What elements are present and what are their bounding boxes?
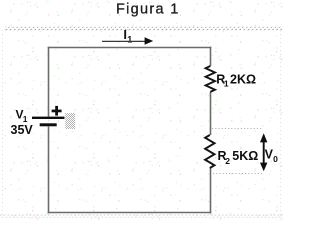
textbox dotted border right	[280, 30, 282, 215]
dashed leader line top of R2	[212, 128, 263, 130]
label V1	[16, 108, 28, 124]
wire left lower	[48, 127, 50, 214]
wire right lower	[210, 168, 212, 213]
V0 measurement arrow	[260, 133, 267, 171]
wire bottom	[48, 212, 212, 214]
label R2 5KOhm	[218, 149, 259, 166]
svg-text:2KΩ: 2KΩ	[230, 73, 256, 87]
resistor R2 zigzag	[205, 135, 214, 168]
label R1 2KOhm	[216, 73, 256, 89]
wire right upper	[210, 47, 212, 66]
battery V1 positive plate	[32, 117, 65, 119]
textbox dotted border left	[2, 30, 4, 215]
gray dither artifact block	[65, 113, 75, 129]
wire right middle	[210, 92, 212, 135]
svg-text:35V: 35V	[11, 123, 34, 137]
dashed leader line bottom of R2	[213, 173, 262, 175]
resistor R1 zigzag	[206, 66, 215, 92]
svg-text:5KΩ: 5KΩ	[232, 149, 258, 163]
svg-text:1: 1	[224, 79, 229, 89]
svg-text:2: 2	[225, 156, 230, 166]
textbox hatched border bottom	[0, 214, 283, 217]
textbox hatched border top	[5, 27, 283, 30]
svg-text:Figura 1: Figura 1	[116, 2, 180, 18]
battery V1 negative plate	[40, 123, 57, 126]
wire top	[48, 47, 212, 49]
label I1	[123, 27, 132, 45]
svg-text:1: 1	[127, 34, 132, 44]
current arrow I1	[102, 37, 153, 44]
label V0	[265, 147, 279, 164]
svg-text:0: 0	[273, 154, 278, 164]
wire left upper	[48, 47, 50, 117]
battery plus sign	[52, 106, 62, 116]
